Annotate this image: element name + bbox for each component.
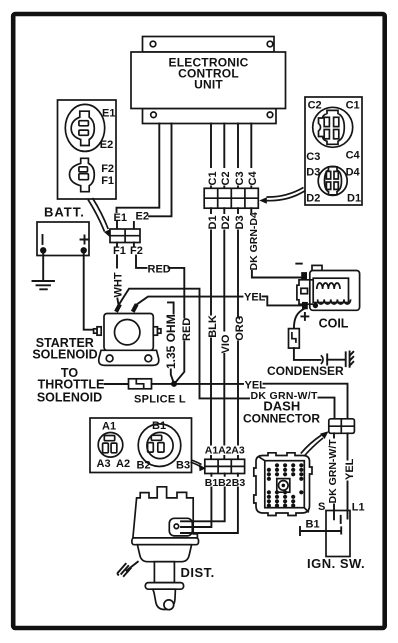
coil - terminal	[296, 264, 306, 279]
leader arrow from B3 to A/B terminal block	[191, 460, 206, 471]
label STARTER SOLENOID	[32, 336, 97, 362]
solenoid terminal (right)	[153, 327, 161, 335]
starter solenoid body	[104, 314, 153, 351]
svg-text:SPLICE L: SPLICE L	[134, 394, 186, 406]
wire YEL to ignition switch L1	[347, 433, 349, 518]
resistance element (condenser lead)	[289, 329, 300, 349]
wire ECU pin E1	[117, 124, 160, 213]
svg-text:C1: C1	[346, 100, 360, 112]
svg-text:D2: D2	[306, 192, 320, 204]
svg-text:ORG: ORG	[234, 316, 246, 341]
wire F2 (RED)	[134, 243, 147, 268]
distributor ground pigtail	[118, 562, 138, 576]
terminal block C1-C4 / D1-D4	[204, 188, 258, 208]
terminal block E1 E2 / F1 F2	[110, 222, 140, 243]
svg-text:A3: A3	[231, 445, 245, 457]
svg-text:E2: E2	[136, 211, 149, 223]
wire F1 (WHT) to solenoid I-terminal	[117, 243, 118, 304]
wire B2 to distributor	[174, 474, 225, 522]
svg-text:C1: C1	[207, 171, 219, 185]
svg-text:RED: RED	[181, 318, 193, 341]
svg-text:E1: E1	[102, 107, 115, 119]
wire RED continues down to splice	[169, 268, 185, 384]
svg-text:D4: D4	[346, 167, 361, 179]
resistance wire 1.35 OHM tap	[168, 302, 174, 383]
svg-text:C3: C3	[234, 171, 246, 185]
svg-text:D1: D1	[347, 192, 361, 204]
svg-text:DK GRN-W/T: DK GRN-W/T	[327, 439, 339, 504]
svg-text:C2: C2	[308, 100, 322, 112]
connector box C1-C4 / D1-D4 (right cable connector)	[305, 97, 362, 205]
wire C1	[210, 124, 212, 189]
svg-text:S: S	[318, 501, 325, 513]
wire splice to junction	[152, 383, 172, 385]
wire from stud2 (to YEL / coil +)	[135, 297, 243, 306]
wire battery + to starter solenoid	[84, 252, 96, 330]
terminal block A1-A3 / B1-B3	[205, 459, 245, 473]
svg-text:YEL: YEL	[245, 380, 267, 392]
svg-text:B1: B1	[306, 519, 320, 531]
svg-text:A1: A1	[205, 445, 219, 457]
svg-text:WHT: WHT	[112, 272, 124, 297]
svg-text:THROTTLE: THROTTLE	[38, 378, 105, 392]
svg-text:C2: C2	[220, 171, 232, 185]
wire throttle solenoid to splice	[105, 383, 129, 385]
wire C2	[223, 124, 225, 189]
wire D1 / BLK	[210, 208, 212, 459]
leader arrow from dash connector to harness block	[301, 431, 329, 456]
ignition coil	[297, 265, 360, 310]
svg-text:A2: A2	[218, 445, 232, 457]
svg-text:CONNECTOR: CONNECTOR	[243, 412, 320, 426]
svg-text:COIL: COIL	[319, 317, 349, 331]
connector box E1/E2/F1/F2 (left cable connector)	[58, 100, 117, 199]
svg-text:B1: B1	[152, 420, 166, 432]
svg-text:B3: B3	[176, 460, 190, 472]
svg-text:A2: A2	[116, 458, 130, 470]
svg-text:C4: C4	[247, 171, 259, 186]
harness block (2x2) near dash connector	[329, 419, 355, 434]
wire D3 / ORG	[237, 208, 239, 459]
condenser symbol	[321, 351, 354, 366]
svg-text:F1: F1	[113, 245, 126, 257]
svg-text:DK GRN-D4: DK GRN-D4	[248, 212, 260, 270]
svg-text:SOLENOID: SOLENOID	[32, 348, 97, 362]
svg-text:UNIT: UNIT	[194, 78, 223, 92]
distributor shaft	[154, 562, 174, 583]
wire D4 / DK GRN-D4 to coil - terminal	[251, 208, 301, 277]
node A1 A2 A3 labels	[205, 445, 245, 457]
dash connector pins	[267, 463, 304, 508]
svg-text:B2: B2	[137, 460, 151, 472]
svg-text:F1: F1	[101, 175, 114, 187]
coil + terminal	[301, 302, 318, 320]
starter solenoid base bracket	[99, 350, 159, 365]
distributor lower shaft	[153, 589, 176, 609]
wire B1 to distributor	[174, 474, 212, 528]
svg-text:D3: D3	[234, 215, 246, 229]
solenoid battery terminal (left)	[94, 327, 102, 335]
wire C4	[250, 124, 252, 189]
distributor cap	[133, 487, 198, 538]
wire D2 / VIO	[223, 208, 225, 459]
svg-text:CONDENSER: CONDENSER	[267, 364, 344, 378]
dash connector body (pin grid)	[254, 453, 312, 516]
wire coil + to condenser	[294, 309, 304, 329]
svg-text:IGN. SW.: IGN. SW.	[307, 556, 365, 571]
svg-text:C4: C4	[346, 150, 361, 162]
svg-text:BATT.: BATT.	[44, 205, 85, 220]
svg-text:D3: D3	[306, 167, 320, 179]
svg-text:D1: D1	[207, 215, 219, 229]
distributor wiring boot	[169, 518, 192, 536]
leader arrow into E/F terminal block	[88, 198, 111, 238]
svg-text:F2: F2	[101, 163, 114, 175]
label DASH CONNECTOR	[243, 399, 320, 426]
battery BATT.	[37, 205, 89, 256]
ground (battery negative)	[33, 253, 55, 289]
connector box A / B (oval connectors)	[90, 418, 192, 473]
svg-text:E1: E1	[114, 212, 127, 224]
splice component SPLICE L	[129, 379, 186, 406]
svg-text:A3: A3	[97, 458, 111, 470]
wire continues to harness block	[319, 398, 335, 419]
svg-text:SOLENOID: SOLENOID	[37, 391, 102, 405]
leader arrow into C/D terminal block	[259, 188, 305, 204]
svg-text:D2: D2	[220, 215, 232, 229]
label TO THROTTLE SOLENOID	[37, 366, 104, 405]
wire from stud1 to dash connector (DK GRN-W/T)	[118, 289, 249, 399]
svg-text:E2: E2	[100, 139, 113, 151]
svg-text:BLK: BLK	[207, 315, 219, 338]
wire B3 to distributor	[174, 474, 238, 534]
svg-text:YEL: YEL	[344, 458, 356, 480]
wire YEL to coil + terminal	[263, 296, 302, 305]
dash connector center key	[277, 479, 290, 493]
distributor flange	[132, 538, 199, 545]
wire YEL junction to dash connector block	[177, 383, 243, 385]
starter solenoid stud 2	[131, 303, 139, 313]
ignition switch IGN. SW.	[300, 501, 365, 571]
wire ECU pin E2	[149, 124, 172, 217]
wire to condenser	[294, 348, 321, 360]
svg-text:A1: A1	[102, 421, 116, 433]
distributor body	[137, 545, 191, 562]
svg-text:YEL: YEL	[244, 292, 266, 304]
svg-text:RED: RED	[148, 264, 171, 276]
wire C3	[237, 124, 239, 189]
node B1 B2 B3 labels	[205, 477, 246, 489]
svg-text:C3: C3	[306, 151, 320, 163]
svg-text:VIO: VIO	[220, 334, 232, 353]
svg-text:L1: L1	[352, 502, 365, 514]
svg-text:1.35 OHM: 1.35 OHM	[164, 314, 178, 369]
distributor collar	[145, 583, 183, 590]
wire DK GRN-W/T to ignition switch S	[333, 433, 335, 519]
junction node (splice dot)	[171, 381, 177, 387]
ECU module: ELECTRONIC CONTROL UNIT	[131, 37, 286, 124]
starter solenoid stud 1	[114, 303, 122, 313]
svg-text:DIST.: DIST.	[181, 565, 215, 580]
